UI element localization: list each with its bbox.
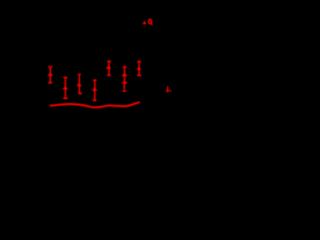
data point 5 marker [106, 65, 112, 69]
isolated data point 8 marker [166, 88, 170, 91]
data point 3 marker [76, 83, 81, 87]
model curve [50, 102, 140, 107]
data point 6 upper error bar [122, 67, 127, 83]
data point 4 error bar [93, 80, 97, 100]
data point 3 error bar [78, 74, 82, 93]
legend label Q [149, 19, 153, 25]
legend marker triangle [142, 21, 146, 25]
data point 2 marker [62, 86, 68, 90]
data point 4 marker [92, 87, 98, 91]
data point 1 marker [48, 72, 54, 76]
data point 5 error bar [107, 61, 111, 75]
data point 6b lower stem [123, 83, 125, 89]
isolated data point 8 stem [167, 86, 169, 92]
data point 7 error bar [137, 62, 141, 76]
data point 2 error bar [63, 78, 67, 99]
data point 1 error bar [48, 66, 52, 83]
data point 6b marker [122, 89, 126, 92]
data point 7 marker [136, 66, 141, 70]
data point 6 marker [122, 72, 128, 76]
small dot right of point 8 [170, 90, 172, 92]
